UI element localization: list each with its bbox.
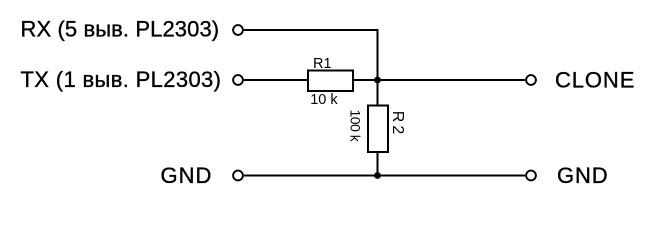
terminal pin GND left [233, 171, 243, 181]
wire TX to R1 [244, 79, 308, 81]
svg-text:10 k: 10 k [310, 92, 338, 108]
svg-text:TX (1 выв. PL2303): TX (1 выв. PL2303) [21, 67, 222, 92]
wire R1 to CLONE [353, 79, 525, 81]
wire RX horizontal + corner down to TX node [244, 30, 378, 80]
svg-text:CLONE: CLONE [555, 68, 635, 93]
wire GND row [244, 175, 525, 177]
svg-text:100 k: 100 k [347, 110, 363, 143]
svg-text:GND: GND [161, 163, 213, 188]
wire node down through R2 to GND [377, 80, 379, 176]
terminal pin GND right [526, 171, 536, 181]
terminal pin TX [233, 75, 243, 85]
terminal pin RX [233, 25, 243, 35]
terminal pin CLONE [526, 75, 536, 85]
junction dot at GND node [374, 172, 381, 179]
resistor R1 body [308, 71, 353, 92]
svg-text:R1: R1 [313, 56, 332, 72]
svg-text:R2: R2 [389, 111, 406, 137]
svg-text:GND: GND [557, 163, 609, 188]
junction dot at TX/CLONE node [374, 77, 381, 84]
svg-text:RX (5 выв. PL2303): RX (5 выв. PL2303) [21, 17, 220, 42]
resistor R2 body [368, 106, 388, 153]
